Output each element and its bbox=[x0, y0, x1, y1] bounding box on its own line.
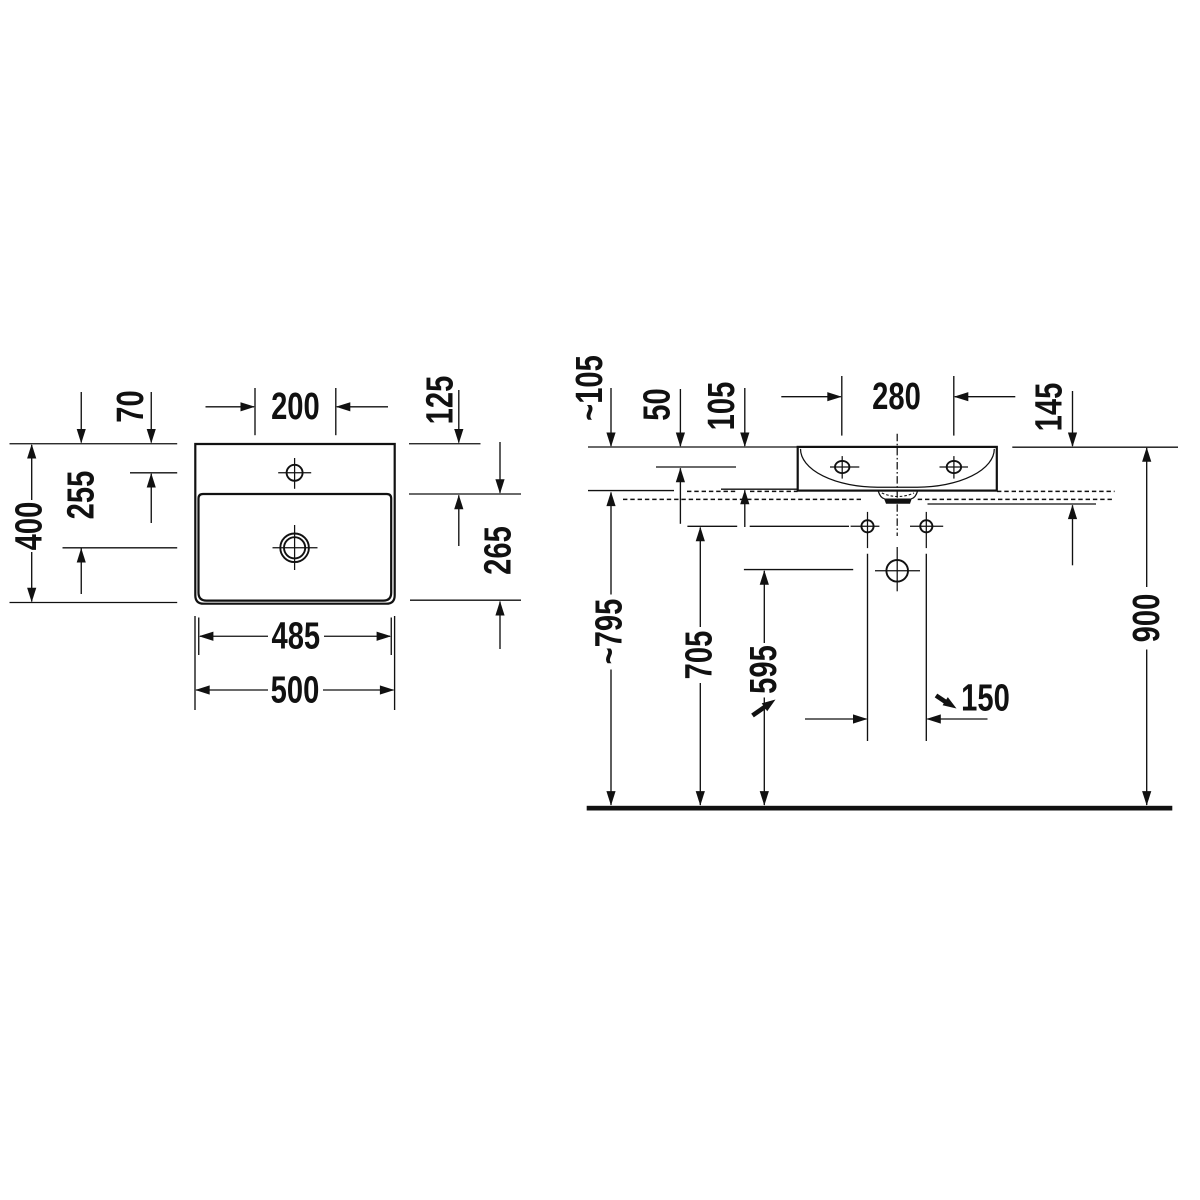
dimension 265 (basin inner depth) bbox=[477, 442, 520, 649]
dimension 150 (waste pipe offset) bbox=[805, 554, 1010, 741]
plan view: washbasin outer rim bbox=[195, 444, 394, 604]
dimension 125 (rear shelf depth) bbox=[419, 376, 464, 546]
elevation: basin body bbox=[798, 447, 997, 491]
extension line: top edge right (plan) bbox=[409, 443, 481, 445]
elevation: drain outlet profile bbox=[878, 491, 917, 504]
dimension 705 (floor to mounting holes) bbox=[678, 527, 721, 806]
svg-text:280: 280 bbox=[872, 375, 921, 418]
svg-text:500: 500 bbox=[271, 669, 320, 712]
extension line: faucet axis (elevation) bbox=[656, 466, 736, 468]
wall / top edge line bbox=[588, 446, 1178, 448]
elevation: inner bowl curve bbox=[801, 449, 995, 487]
elevation: mounting hole left bbox=[851, 512, 880, 548]
extension line: bottom edge (plan) bbox=[10, 602, 178, 604]
svg-text:595: 595 bbox=[742, 645, 785, 694]
svg-text:50: 50 bbox=[636, 388, 679, 420]
svg-text:~795: ~795 bbox=[588, 599, 631, 665]
elevation: faucet hole left bbox=[830, 456, 859, 479]
plan view: drain outlet bbox=[273, 525, 318, 570]
svg-text:105: 105 bbox=[700, 382, 743, 431]
dimension 145 (edge to siphon cover) bbox=[1028, 383, 1077, 566]
extension line: top edge (plan) bbox=[10, 443, 178, 445]
dimension 500 (overall width) bbox=[195, 669, 394, 712]
dimension 280 (faucet hole spacing) bbox=[781, 375, 1015, 435]
dimension 200 (faucet zone width) bbox=[206, 385, 389, 435]
extension line: faucet axis (plan) bbox=[130, 472, 177, 474]
svg-text:~105: ~105 bbox=[568, 355, 611, 421]
svg-text:145: 145 bbox=[1028, 383, 1071, 432]
svg-text:200: 200 bbox=[271, 385, 320, 428]
extension line: drain axis (plan) bbox=[63, 547, 178, 549]
floor line bbox=[587, 806, 1173, 811]
dimension 70 (faucet from rear) bbox=[109, 390, 156, 523]
dimension 485 (inner width) bbox=[199, 615, 391, 658]
svg-text:255: 255 bbox=[60, 471, 103, 520]
svg-text:265: 265 bbox=[477, 526, 520, 575]
svg-text:900: 900 bbox=[1125, 594, 1168, 643]
svg-text:150: 150 bbox=[961, 677, 1010, 720]
elevation: waste pipe hole bbox=[875, 547, 920, 591]
dimension 105 (edge to underside) bbox=[700, 382, 749, 527]
elevation: centre line bbox=[896, 434, 898, 536]
reference line: basin underside left bbox=[588, 490, 674, 492]
extension line: waste pipe level bbox=[744, 569, 853, 571]
dimension 50 (edge to faucet axis) bbox=[636, 388, 685, 524]
svg-text:705: 705 bbox=[678, 631, 721, 680]
dimension 400 (overall depth) bbox=[8, 444, 51, 602]
plan view: inner basin rim bbox=[199, 494, 392, 601]
svg-text:400: 400 bbox=[8, 502, 51, 551]
extension line: bottom edge right (plan) bbox=[410, 599, 521, 601]
extension line: basin front edge (plan) bbox=[409, 493, 521, 495]
svg-text:485: 485 bbox=[271, 615, 320, 658]
hidden line: console level (dashed) bbox=[623, 498, 1115, 500]
svg-text:70: 70 bbox=[109, 390, 152, 422]
reference line: basin underside mid bbox=[721, 488, 798, 490]
svg-text:125: 125 bbox=[419, 376, 462, 425]
extension lines: bottom width (plan) bbox=[195, 616, 395, 710]
dimension 595 (floor to waste pipe) bbox=[742, 570, 785, 805]
dimension 900 (wall outlet height) bbox=[1125, 447, 1168, 805]
reference line: siphon cover bottom bbox=[928, 503, 1097, 505]
dimension ~795 (floor to underside) bbox=[588, 492, 631, 806]
extension line: mounting holes level bbox=[687, 525, 849, 527]
elevation: faucet hole right bbox=[940, 456, 969, 479]
plan view: faucet hole bbox=[278, 458, 311, 489]
dimension ~105 (edge to underside) bbox=[568, 355, 615, 447]
hidden line: basin underside (dashed) bbox=[687, 490, 1115, 492]
dimension 255 (drain from rear) bbox=[60, 392, 103, 594]
elevation: mounting hole right bbox=[910, 512, 943, 548]
